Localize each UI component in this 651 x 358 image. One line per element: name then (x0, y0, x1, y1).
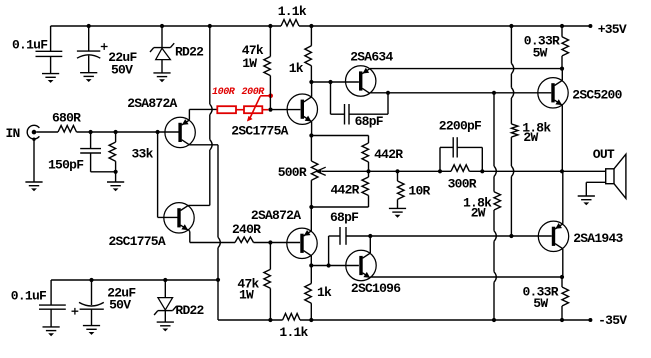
label 0.33R 5W (bottom) (523, 285, 559, 312)
wire speaker return (586, 182, 605, 196)
wire Q2 emitter drop to 240R (188, 230, 235, 243)
ground 0.1uF (top) (42, 74, 59, 83)
junction 68pF right / collector line (386, 91, 390, 95)
wire 240R to Q8 base (254, 242, 301, 244)
label 200R (red) (242, 87, 266, 98)
junction 33k tap (114, 130, 118, 134)
junction 1.8k upper-line tap (492, 91, 496, 95)
svg-text:+35V: +35V (598, 22, 627, 37)
svg-text:1.1k: 1.1k (279, 325, 308, 340)
junction top rail / 22uF (87, 24, 91, 28)
svg-text:2SC5200: 2SC5200 (572, 88, 622, 103)
junction distribution / 22uF (89, 278, 93, 282)
transistor Q8 2SA872A (VAS bottom PNP) (287, 228, 317, 258)
svg-text:240R: 240R (232, 222, 261, 237)
wire Q5 emitter to output (561, 105, 563, 171)
label 47k 1W (top) (242, 43, 264, 71)
resistor 0.33R 5W (bottom) (562, 277, 569, 320)
junction 1k / Q3 collector / driver base line (309, 80, 313, 84)
junction Q8 collector / 1k / driver base line (309, 263, 313, 267)
wire feedback top branch (311, 136, 368, 144)
junction 2200pF right (480, 169, 484, 173)
svg-text:RD22: RD22 (175, 45, 204, 60)
junction bottom rail / 1.8k (492, 318, 496, 322)
label 2SC1775A (VAS top) (231, 124, 288, 139)
junction bottom rail / 1k (309, 318, 313, 322)
junction 0.33R / Q4 emitter / Q5 collector (560, 67, 564, 71)
transistor Q3 2SC1775A (VAS top NPN) (287, 94, 317, 124)
junction Q7 collector / base line (368, 234, 372, 238)
junction 150pF tap (89, 130, 93, 134)
transistor Q2 2SC1775A (bottom input NPN) (164, 203, 194, 233)
capacitor 68pF (top) (331, 82, 389, 125)
svg-text:50V: 50V (109, 297, 131, 312)
label 1.1k (top) (278, 4, 307, 19)
label 300R (448, 176, 477, 191)
svg-text:68pF: 68pF (330, 210, 359, 225)
svg-text:2SC1775A: 2SC1775A (109, 234, 166, 249)
svg-text:2W: 2W (471, 205, 486, 220)
wire IN shield to ground (33, 139, 35, 182)
resistor 240R (235, 237, 254, 243)
ground 10R (389, 208, 406, 217)
svg-text:2SA872A: 2SA872A (127, 96, 177, 111)
capacitor 150pF (80, 132, 115, 172)
label 2SA872A (top input) (127, 96, 177, 111)
wire Q7 collector line to Q6 base (y=236) (346, 235, 552, 237)
label 33k (132, 147, 154, 162)
junction 33k/150pF bottom (114, 170, 118, 174)
label 1.1k (bottom) (279, 325, 308, 340)
label 1k (bottom) (317, 285, 332, 300)
wire Q1 collector to negative riser (189, 144, 218, 146)
label IN (6, 126, 20, 141)
wire IN to 680R (36, 131, 58, 133)
label 1.8k 2W (upper) (522, 120, 551, 145)
resistor 442R (bottom) (362, 171, 369, 195)
resistor 1.1k (bottom rail) (283, 314, 300, 321)
capacitor 0.1uF (top) (36, 26, 63, 73)
transistor Q4 2SA634 (top driver PNP) (346, 66, 376, 96)
label 1.8k 2W (lower) (463, 196, 492, 221)
wire Q3 emitter drop (311, 122, 313, 136)
resistor 47k 1W (top) (264, 26, 271, 110)
svg-text:5W: 5W (533, 296, 548, 311)
capacitor 2200pF (440, 137, 482, 171)
svg-text:33k: 33k (132, 147, 154, 162)
svg-text:50V: 50V (111, 62, 133, 77)
svg-text:1.1k: 1.1k (278, 4, 307, 19)
resistor 1k (top) (305, 26, 312, 82)
label 22uF 50V (bottom) (107, 286, 136, 313)
svg-text:500R: 500R (278, 165, 307, 180)
resistor 47k 1W (bottom) (264, 243, 271, 321)
wire -rail distribution (y=280) (51, 279, 218, 281)
polarity + (top 22uF) (101, 43, 108, 50)
wire Q7 collector riser (369, 236, 371, 253)
ground 22uF (bottom) (83, 326, 100, 335)
label 10R (408, 184, 430, 199)
ground speaker (578, 196, 595, 205)
svg-text:100R: 100R (212, 87, 236, 98)
wire Q6 emitter riser to output (562, 171, 564, 224)
label 0.1uF (top) (12, 37, 48, 52)
ground 33k (107, 182, 124, 191)
svg-text:442R: 442R (331, 183, 360, 198)
junction 500R bottom / feedback bottom (309, 205, 313, 209)
label RD22 (bottom) (175, 303, 204, 318)
transistor Q1 2SA872A (top input PNP) (165, 117, 195, 147)
resistor 0.33R 5W (top) (562, 26, 569, 69)
connector IN jack (27, 125, 39, 141)
junction top rail / 0.33R (560, 24, 564, 28)
polarity + (bottom 22uF) (72, 308, 79, 315)
resistor 1.8k 2W (to -rail, x=494) (494, 93, 501, 320)
label 2SC1775A (bottom input) (109, 234, 166, 249)
wire feedback bottom branch (311, 196, 368, 208)
resistor 10R (398, 171, 405, 208)
wire negative riser x=218 (Q1 collector to -rail) (218, 145, 220, 320)
speaker (606, 154, 626, 198)
wire Q6 collector drop (562, 249, 564, 277)
junction distribution / riser (216, 278, 220, 282)
label 2SA634 (350, 50, 393, 65)
wire positive riser x=210 (Q2 collector to +rail) (210, 26, 212, 205)
capacitor 68pF (bottom) (329, 227, 346, 266)
label 2200pF (439, 119, 482, 134)
label 2SC5200 (572, 88, 622, 103)
junction top rail / 1k (309, 24, 313, 28)
junction bottom rail / 0.33R (560, 318, 564, 322)
svg-text:2SA872A: 2SA872A (251, 208, 301, 223)
junction top rail / 47k (268, 24, 272, 28)
capacitor 0.1uF (bottom) (39, 280, 66, 327)
label 22uF 50V (top) (108, 50, 137, 77)
svg-text:2W: 2W (523, 130, 538, 145)
junction top rail / input stage collector riser (208, 24, 212, 28)
ground RD22 (top) (153, 73, 170, 82)
svg-text:680R: 680R (52, 110, 81, 125)
resistor 300R (output zobel series) (451, 165, 469, 172)
label 442R (top) (374, 147, 403, 162)
svg-text:150pF: 150pF (48, 157, 84, 172)
resistor 680R (58, 126, 77, 133)
wire Q7 emitter line (y=277) (370, 276, 562, 279)
junction bottom rail / 47k (268, 318, 272, 322)
resistor 1.1k (top rail) (281, 20, 299, 27)
label 100R (red) (212, 87, 236, 98)
label 68pF (top) (355, 114, 384, 129)
junction 442R top / output line (366, 169, 370, 173)
label 1k (top) (289, 61, 304, 76)
svg-text:OUT: OUT (593, 147, 615, 162)
junction top rail / 1.8k riser (509, 24, 513, 28)
junction 2200pF left (438, 169, 442, 173)
label 68pF (bottom) (330, 210, 359, 225)
resistor 1.8k 2W (from +rail, x=511) (511, 26, 518, 236)
junction trimmer wiper (red dot) (268, 94, 273, 99)
resistor 1k (bottom) (305, 266, 312, 321)
wire 680R to base node (77, 131, 179, 133)
label 2SA872A (VAS bottom) (251, 208, 301, 223)
transistor Q5 2SC5200 (top output NPN) (538, 78, 568, 108)
wire red link (236, 109, 244, 111)
svg-text:68pF: 68pF (355, 114, 384, 129)
junction top rail / RD22 (160, 24, 164, 28)
junction Q6 collector / 0.33R / driver emitter line (560, 275, 564, 279)
wire base-node down to lower input transistor (158, 132, 178, 217)
label RD22 (top) (175, 45, 204, 60)
svg-text:2SA634: 2SA634 (350, 50, 393, 65)
diode RD22 zener (top) (150, 26, 174, 73)
junction 68pF top tap (328, 80, 332, 84)
label 150pF (48, 157, 84, 172)
label 442R (bottom) (331, 183, 360, 198)
wire -35V bottom rail (218, 319, 590, 321)
wire Q8 collector drop (310, 255, 312, 265)
junction 47k / trimmer / Q3 base (268, 108, 272, 112)
svg-text:200R: 200R (242, 87, 266, 98)
wire Q5 collector riser (561, 69, 563, 81)
diode RD22 zener (bottom) (154, 280, 176, 322)
svg-text:300R: 300R (448, 176, 477, 191)
capacitor 22uF 50V (bottom electrolytic) (79, 280, 104, 325)
svg-text:2200pF: 2200pF (439, 119, 482, 134)
ground RD22 (bottom) (157, 322, 174, 331)
svg-text:442R: 442R (374, 147, 403, 162)
resistor 200R trimmer (red mod) (244, 96, 271, 122)
ground 0.1uF (bottom) (43, 327, 60, 336)
wire Q3 collector riser (311, 82, 313, 97)
junction 68pF bottom tap (327, 263, 331, 267)
ground 22uF (top) (80, 73, 97, 82)
svg-text:2SC1775A: 2SC1775A (231, 124, 288, 139)
wire 33k bottom to ground (115, 172, 117, 182)
wire driver base line (y=82) (311, 81, 359, 83)
label 2SA1943 (573, 231, 623, 246)
junction distribution / RD22 (163, 278, 167, 282)
wiper 500R arrow (316, 167, 325, 175)
svg-text:IN: IN (6, 126, 20, 141)
resistor 500R trimmer (feedback) (311, 136, 318, 208)
wire Q2 collector to positive riser (188, 204, 210, 206)
wire Q1 emitter riser (189, 109, 217, 119)
wire Q4 collector line (y=92.8) (370, 92, 551, 94)
label 0.1uF (bottom) (11, 288, 47, 303)
transistor Q6 2SA1943 (bottom output PNP) (538, 221, 568, 251)
label 2SC1096 (351, 281, 401, 296)
svg-text:2SA1943: 2SA1943 (573, 231, 623, 246)
svg-text:2SC1096: 2SC1096 (351, 281, 401, 296)
svg-text:-35V: -35V (598, 313, 627, 328)
terminal +35V (588, 22, 626, 37)
resistor 100R (red mod) (217, 106, 236, 113)
junction 240R / 47k / Q8 base (268, 240, 272, 244)
wire output line (322, 170, 606, 172)
label 240R (232, 222, 261, 237)
svg-text:0.1uF: 0.1uF (12, 37, 48, 52)
junction base-node split (156, 130, 160, 134)
capacitor 22uF 50V (top electrolytic) (77, 26, 100, 73)
wire +35V top rail (51, 25, 591, 27)
label 0.33R 5W (top) (524, 34, 560, 61)
junction output node (560, 169, 564, 173)
svg-text:RD22: RD22 (175, 303, 204, 318)
junction 10R tap (395, 169, 399, 173)
label OUT (593, 147, 615, 162)
svg-text:5W: 5W (533, 46, 548, 61)
junction Q3 emitter / feedback top (309, 133, 313, 137)
svg-text:10R: 10R (408, 184, 430, 199)
label 47k 1W (bottom) (237, 277, 259, 303)
wire Q8 emitter riser (310, 207, 312, 232)
wire trimmer junction to Q3 base (271, 109, 301, 111)
svg-text:1W: 1W (242, 56, 257, 71)
wire Q4 emitter line (y=68.6) (370, 68, 562, 70)
junction 2SA1943 base line (509, 234, 513, 238)
ground IN jack (25, 182, 42, 191)
label 500R (278, 165, 307, 180)
svg-text:1k: 1k (289, 61, 304, 76)
svg-text:1k: 1k (317, 285, 332, 300)
transistor Q7 2SC1096 (bottom driver NPN) (346, 250, 376, 280)
label 680R (52, 110, 81, 125)
wire driver base line (y=265.5) (311, 265, 359, 267)
terminal -35V (588, 313, 627, 328)
resistor 33k (109, 132, 116, 172)
svg-text:1W: 1W (239, 288, 254, 303)
svg-text:0.1uF: 0.1uF (11, 288, 47, 303)
resistor 442R (top) (362, 143, 369, 171)
